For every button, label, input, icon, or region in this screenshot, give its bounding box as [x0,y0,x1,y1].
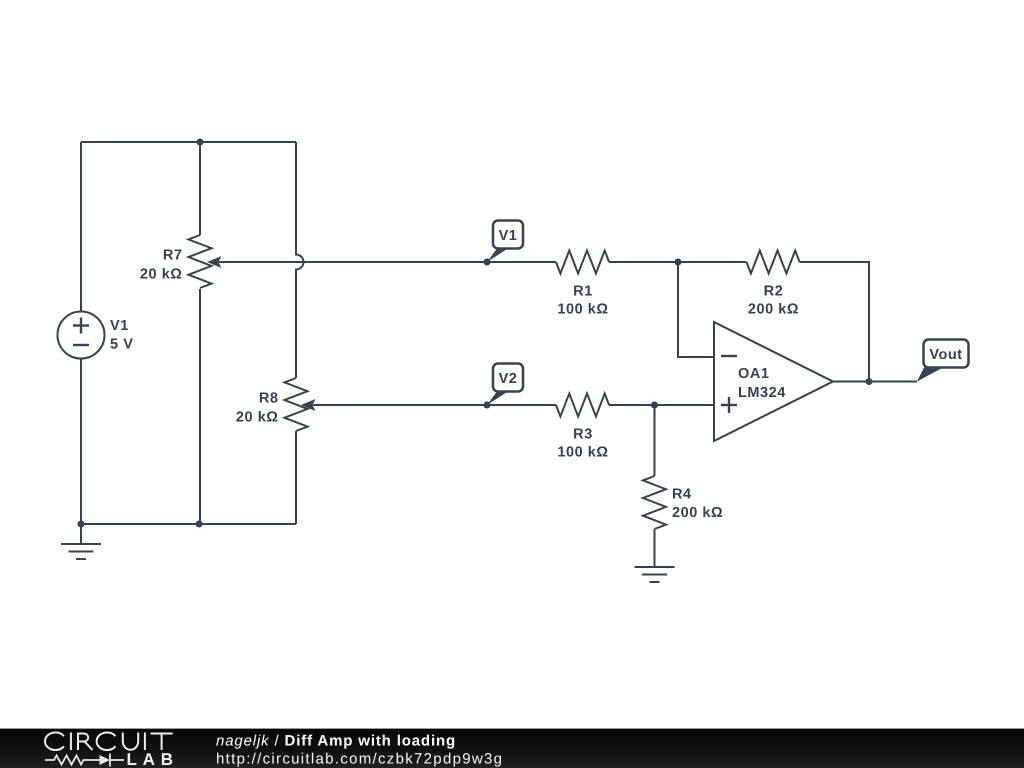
wire R7 top stub [199,142,201,235]
resistor R2 [747,251,800,274]
wire R4 to ground [654,529,656,566]
wire left rail lower [80,359,82,525]
resistor R3 [556,394,609,417]
wire bottom rail [81,523,296,525]
svg-text:R4: R4 [672,487,692,503]
wire R1 to feedback node [609,261,746,263]
junction flag V1 [484,259,491,266]
CircuitLab logo resistor-diode glyph [45,754,124,767]
svg-text:nageljk / Diff Amp with loadin: nageljk / Diff Amp with loading [216,733,456,750]
junction R3 / R4 / non-inverting input [651,402,658,409]
wire R8 bottom stub [295,431,297,524]
wire net V2 horizontal [313,404,556,406]
op-amp OA1 triangle [714,322,833,441]
svg-text:LM324: LM324 [738,385,786,401]
wire top rail [81,141,296,143]
svg-text:100 kΩ: 100 kΩ [557,302,608,318]
ground at V1 [61,524,101,559]
svg-text:LAB: LAB [127,750,179,768]
potentiometer R8 body [285,378,308,431]
junction bottom rail / V1 ground [78,521,85,528]
svg-text:R1: R1 [573,284,593,300]
svg-text:V1: V1 [499,228,518,244]
junction flag V2 [484,402,491,409]
potentiometer R7 wiper arrow [207,256,222,268]
wire R3 to op-amp non-inverting input [609,404,714,406]
svg-text:200 kΩ: 200 kΩ [672,505,723,521]
svg-text:V2: V2 [499,371,518,387]
svg-text:R2: R2 [764,284,784,300]
junction bottom rail / R7 [196,521,203,528]
potentiometer R7 body [189,235,212,288]
wire node to R4 [654,405,656,476]
potentiometer R8 wiper arrow [301,399,316,411]
svg-text:OA1: OA1 [738,366,769,382]
svg-text:100 kΩ: 100 kΩ [557,445,608,461]
node flag Vout [917,340,969,382]
node flag V2 [487,364,523,406]
junction R1 / R2 / inverting input [675,259,682,266]
svg-text:200 kΩ: 200 kΩ [748,302,799,318]
svg-text:20 kΩ: 20 kΩ [236,410,279,426]
junction top rail / R7 [197,139,204,146]
wire R2 to output [800,262,869,382]
svg-text:20 kΩ: 20 kΩ [140,267,183,283]
svg-text:V1: V1 [110,318,129,334]
resistor R1 [556,251,609,274]
voltage source V1 circle [58,312,105,359]
wire left rail upper [80,142,82,312]
ground at R4 [635,567,675,582]
junction output / R2 [866,378,873,385]
wire net V1 horizontal [219,261,556,263]
svg-text:http://circuitlab.com/czbk72pd: http://circuitlab.com/czbk72pdp9w3g [216,751,503,768]
svg-text:R3: R3 [573,427,593,443]
op-amp OA1 input polarity marks [721,356,737,413]
svg-text:R8: R8 [259,391,279,407]
svg-text:5 V: 5 V [110,337,133,353]
CircuitLab wordmark CIRCUIT [45,733,173,751]
resistor R4 [643,476,666,529]
wire R7 bottom stub [199,289,201,524]
svg-text:Vout: Vout [929,347,962,363]
wire feedback node to op-amp inverting input [678,262,714,357]
wire right branch with hop over V1 net [296,142,304,378]
node flag V1 [487,221,523,263]
voltage source V1 polarity marks [73,318,89,346]
svg-text:R7: R7 [163,248,183,264]
wire op-amp output [833,381,917,383]
